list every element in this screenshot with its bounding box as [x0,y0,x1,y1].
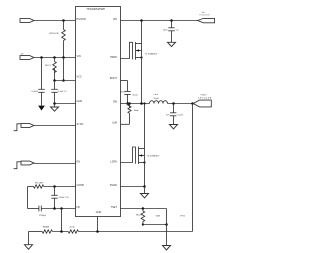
ground (open) bottom left [25,232,33,250]
node SW-Rilim junction [128,102,131,105]
svg-text:SYNC: SYNC [77,123,84,126]
transistor Q2 low-side MOSFET [121,147,161,165]
ground (open) under C6 [170,125,178,129]
svg-text:PGND: PGND [110,184,117,187]
svg-text:RPGOOD: RPGOOD [49,33,59,35]
wire bottom rail left [29,231,43,233]
resistor R6 RT [136,209,145,225]
node COMP branch junction [53,185,56,188]
svg-text:RCOMP: RCOMP [35,182,44,184]
wire VIN to VCC parallel branch [63,58,65,81]
node FB divider junction [60,207,63,210]
node SW-Q junction [140,102,143,105]
svg-text:GND: GND [96,211,102,214]
wire VIN rail left [34,57,76,59]
resistor R3 RCOMP [28,182,76,188]
resistor R5 divider top [68,227,192,234]
resistor R2 RVCC [45,58,56,81]
svg-text:T1 Si4884DY: T1 Si4884DY [145,54,159,56]
svg-text:0.1µF C7: 0.1µF C7 [58,91,67,93]
node VIN-C1 junction [40,56,43,59]
svg-text:VOUT: VOUT [200,94,207,96]
connector J5 VIN input flag [198,12,215,23]
resistor R1 RPGOOD [49,21,65,58]
svg-text:T2 Si4884DY: T2 Si4884DY [147,156,161,158]
svg-text:Vin: Vin [21,53,24,55]
capacitor C7 boot [120,81,138,104]
svg-text:Cboot: Cboot [132,94,138,97]
node Vout-C6 junction [172,102,175,105]
svg-text:GND: GND [77,100,83,103]
svg-text:SW: SW [113,101,118,104]
inductor L1 [150,93,168,103]
svg-text:Rilim: Rilim [134,110,139,112]
connector J4 EN with pulse glyph [14,161,34,169]
node GND-rail junction [96,230,99,233]
connector J6 VOUT flag [193,94,211,107]
svg-text:COUT: COUT [177,115,184,117]
svg-text:SDB: SDB [156,216,161,218]
svg-text:HDRV: HDRV [110,56,117,59]
connector J2 VIN [20,53,34,59]
node VIN-C5 junction [170,19,173,22]
svg-text:BOOT: BOOT [110,77,118,80]
connector J3 SYNC with pulse glyph [14,124,34,131]
wire RT loop bottom [143,224,167,226]
svg-text:10µH: 10µH [153,98,159,100]
svg-text:RBIAS: RBIAS [43,226,50,229]
svg-text:100n: 100n [120,92,124,94]
wire J4 to EN pin [34,163,76,165]
svg-text:Lout: Lout [154,93,159,96]
wire Q2 drain/source vertical [144,104,146,187]
wire VCC pin [55,80,76,82]
svg-text:COMP: COMP [77,184,85,187]
node VIN-RVCC junction [53,56,56,59]
svg-text:470pF C11: 470pF C11 [59,197,70,199]
connector J1 PGOOD [20,19,34,23]
wire RT loop right / ground drop [166,209,168,246]
capacitor C1 VIN bypass [31,58,44,106]
node PGOOD junction [62,19,65,22]
svg-text:PGOOD: PGOOD [77,18,87,21]
capacitor C6 output [166,104,184,125]
svg-text:2200pF: 2200pF [39,215,47,217]
node RT junction [142,207,145,210]
node VIN-Q1 junction [140,19,143,22]
svg-text:0.47µF: 0.47µF [31,91,38,93]
resistor R7 RILIM [121,104,139,125]
wire Q1 drain to VIN / source to SW node [141,21,143,104]
IC U1 controller body [76,7,121,217]
wire RT pin [121,208,167,210]
capacitor C5 input bypass [163,21,180,43]
node SW-Q2 junction [143,102,145,104]
svg-text:10.0k: 10.0k [69,227,75,229]
svg-text:EN: EN [77,160,81,163]
wire J3 to SYNC pin [34,125,76,127]
wire VOUT sense drop [192,104,194,232]
wire comp network left side [27,187,29,209]
svg-text:TSET: TSET [111,206,118,209]
wire SW rail [121,103,150,105]
wire GND bottom pin stem [97,217,99,232]
ground (open) under C2 [51,104,59,112]
node boot-SW junction [126,102,129,105]
svg-text:VIN: VIN [113,18,117,21]
svg-text:9 V to 15 V: 9 V to 15 V [200,14,211,17]
capacitor C2 VCC bypass [51,81,67,104]
node FB-C3 junction [53,207,56,210]
capacitor C4 comp zero [28,206,76,217]
resistor R4 RBIAS [42,226,68,234]
node PGND junction [143,185,146,188]
node divider-FB junction [60,230,63,233]
capacitor C3 comp pole [51,187,69,209]
node VCC junction [53,79,56,82]
wire FB tap vertical [61,209,63,232]
svg-text:ILIM: ILIM [112,122,117,125]
node R6 bottom junction [142,223,144,225]
svg-text:LDRV: LDRV [110,160,117,163]
svg-text:TP11: TP11 [180,216,186,218]
node GND junction [53,102,56,105]
svg-text:VIN: VIN [77,55,81,58]
wire PGND pin [121,186,145,188]
node Vout output junction [191,102,194,105]
node VIN-RPGOOD junction [62,56,65,59]
ground (open) under C5 [168,42,176,46]
svg-text:Rtset: Rtset [136,213,141,216]
svg-text:RVCC: RVCC [45,65,52,67]
svg-text:FB: FB [77,206,81,209]
wire J1 to U1 pin PGOOD [34,20,76,22]
wire SW rail to output [168,103,193,105]
ground (open) power stage [141,187,149,198]
svg-text:VCC: VCC [77,76,82,79]
node VCC branch junction [62,79,65,82]
ground (open) bottom right [163,246,171,251]
wire GND pin left [55,103,76,105]
node RT loop junction [165,223,168,226]
svg-text:TPS40054PWP: TPS40054PWP [86,7,105,11]
wire VIN rail right [121,20,198,22]
svg-text:1.8 V at 1.5 A: 1.8 V at 1.5 A [198,96,212,99]
transistor Q1 high-side MOSFET [121,42,159,60]
ground (solid) under C1 [38,106,45,111]
